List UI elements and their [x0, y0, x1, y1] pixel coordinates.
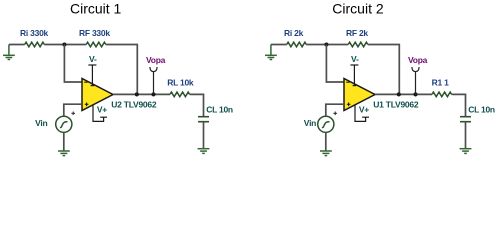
- wire source to ground: [63, 132, 65, 150]
- svg-text:Vin: Vin: [304, 118, 316, 128]
- svg-text:RF 2k: RF 2k: [346, 28, 368, 38]
- junction dot probe (c2): [413, 92, 417, 96]
- minus input marker (c2): [346, 81, 349, 83]
- node B junction dot: [324, 42, 328, 46]
- resistor RF 330k: [86, 42, 106, 47]
- svg-text:Ri 330k: Ri 330k: [20, 28, 49, 38]
- V+ power pin (c2): [355, 105, 369, 122]
- plus input marker (c2): [347, 103, 351, 107]
- svg-text:Circuit 2: Circuit 2: [332, 0, 384, 16]
- svg-text:V-: V-: [89, 54, 97, 64]
- wire source to ground (c2): [325, 132, 327, 150]
- resistor Ri 330k: [25, 42, 45, 47]
- source VG2 sine: [318, 116, 334, 132]
- wire node B to inverting input: [326, 45, 344, 83]
- source plus marker: [71, 112, 75, 116]
- wire CL to ground: [203, 122, 205, 148]
- node A junction dot: [62, 42, 66, 46]
- resistor RL 10k: [170, 92, 190, 97]
- ground GND3 (under source, circuit 1): [58, 151, 70, 156]
- wire op-amp output (c2): [375, 93, 432, 95]
- junction dot feedback (c2): [397, 92, 401, 96]
- svg-text:CL 10n: CL 10n: [206, 105, 233, 115]
- wire CL to ground (c2): [465, 122, 467, 148]
- ground GND5 (under CL, circuit 2): [460, 149, 472, 154]
- source VG1 sine: [56, 116, 72, 132]
- svg-text:Circuit 1: Circuit 1: [70, 0, 122, 16]
- wire RF to output (feedback): [106, 45, 138, 95]
- minus input marker: [84, 81, 87, 83]
- svg-text:R1 1: R1 1: [432, 77, 449, 87]
- wire node A to inverting input: [64, 45, 82, 83]
- svg-text:Ri 2k: Ri 2k: [284, 28, 304, 38]
- wire Ri to node A: [44, 44, 86, 46]
- V- power pin (c2): [350, 65, 358, 86]
- svg-text:RL 10k: RL 10k: [167, 77, 194, 87]
- svg-text:Vopa: Vopa: [146, 55, 166, 65]
- resistor RF 2k: [348, 42, 368, 47]
- svg-text:V+: V+: [359, 105, 369, 115]
- wire RL to CL: [190, 94, 204, 116]
- V- power pin: [88, 65, 96, 86]
- capacitor CL 10n: [198, 117, 209, 122]
- wire RF to output (feedback, c2): [368, 45, 400, 95]
- ground GND6 (under source, circuit 2): [320, 151, 332, 156]
- wire Ri to node B: [306, 44, 348, 46]
- resistor R1 1: [432, 92, 452, 97]
- svg-text:U1 TLV9062: U1 TLV9062: [373, 100, 419, 110]
- svg-text:RF 330k: RF 330k: [79, 28, 110, 38]
- plus input marker: [85, 103, 89, 107]
- V+ power pin: [93, 105, 107, 122]
- junction dot probe: [151, 92, 155, 96]
- svg-text:V+: V+: [97, 105, 107, 115]
- probe Vopa: [150, 67, 157, 94]
- resistor Ri 2k: [287, 42, 307, 47]
- svg-text:V-: V-: [351, 54, 359, 64]
- svg-text:Vopa: Vopa: [408, 55, 428, 65]
- wire ground to Ri: [9, 44, 25, 46]
- op-amp U1 triangle: [82, 79, 113, 111]
- capacitor CL 10n (c2): [460, 117, 471, 122]
- wire ground to Ri (c2): [271, 44, 287, 46]
- wire source to non-inverting input: [64, 104, 82, 116]
- svg-text:U2 TLV9062: U2 TLV9062: [111, 100, 157, 110]
- junction dot feedback: [135, 92, 139, 96]
- op-amp U1 triangle (c2): [344, 79, 375, 111]
- ground GND4 (input side, circuit 2): [265, 45, 277, 60]
- probe Vopa (c2): [412, 67, 419, 94]
- source plus marker (c2): [333, 112, 337, 116]
- ground GND1 (input side, circuit 1): [3, 45, 15, 60]
- wire source to non-inverting input (c2): [326, 104, 344, 116]
- svg-text:Vin: Vin: [35, 118, 47, 128]
- wire R1 to CL (c2): [452, 94, 466, 116]
- wire op-amp output: [113, 93, 170, 95]
- svg-text:CL 10n: CL 10n: [468, 105, 495, 115]
- ground GND2 (under CL, circuit 1): [198, 149, 210, 154]
